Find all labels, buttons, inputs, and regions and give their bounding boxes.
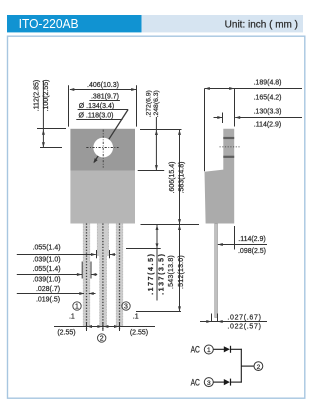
svg-text:.114(2.9): .114(2.9) xyxy=(254,122,282,129)
lead 2 (front, wide upper section) xyxy=(97,224,109,331)
dim line .606/.583 upper xyxy=(179,130,181,224)
svg-text:.512(13.0): .512(13.0) xyxy=(178,255,185,289)
arrow down .606 xyxy=(178,219,181,224)
arrow .055 #2 xyxy=(77,273,82,276)
pin number 1 xyxy=(73,302,81,310)
pitch arrows xyxy=(87,325,92,328)
arrow down .543 xyxy=(178,306,181,311)
svg-text:.028(.7): .028(.7) xyxy=(36,286,60,293)
node circle 2 xyxy=(254,362,263,371)
side view package profile xyxy=(205,129,235,224)
ext line side back xyxy=(234,89,236,127)
dim line .543/.512 xyxy=(179,225,181,312)
side view hole centerline xyxy=(220,146,240,148)
svg-text:Ø .134(3.4): Ø .134(3.4) xyxy=(79,103,114,110)
svg-text:.406(10.3): .406(10.3) xyxy=(87,82,119,89)
svg-text:.055(1.4): .055(1.4) xyxy=(33,245,61,252)
svg-text:.583(14.8): .583(14.8) xyxy=(178,162,185,194)
dim line .112/.100 xyxy=(42,81,44,148)
tick lead2 xyxy=(102,322,104,331)
arrow lead tip right xyxy=(218,320,223,323)
svg-text:.039(1.0): .039(1.0) xyxy=(33,276,61,283)
svg-text:2: 2 xyxy=(100,336,104,343)
svg-text:.189(4.8): .189(4.8) xyxy=(253,80,281,87)
lead tip baseline (side) xyxy=(200,321,267,323)
tick lead tip left xyxy=(211,314,213,322)
svg-text:.381(9.7): .381(9.7) xyxy=(91,93,119,100)
dim .406(10.3) line xyxy=(70,89,136,91)
wire vertical join xyxy=(240,349,242,383)
arrow up .606 xyxy=(178,130,181,135)
svg-text:.022(.57): .022(.57) xyxy=(227,323,261,330)
svg-text:.177(4.5): .177(4.5) xyxy=(148,252,155,294)
lead 1 (front) xyxy=(83,224,90,331)
unit strip xyxy=(142,15,304,32)
svg-text:.248(6.3): .248(6.3) xyxy=(153,90,160,117)
svg-text:.114(2.9): .114(2.9) xyxy=(238,236,266,243)
svg-text:.137(3.5): .137(3.5) xyxy=(158,252,165,294)
ext line tab bottom right xyxy=(138,170,165,172)
wire to node 2 xyxy=(241,365,254,367)
arrow up .177 at body ext xyxy=(156,225,159,230)
arrow down .272 xyxy=(155,165,158,170)
svg-text:.272(6.9): .272(6.9) xyxy=(146,90,153,117)
ext line side front xyxy=(204,89,206,172)
dim .189 line xyxy=(205,88,303,90)
svg-text:.1: .1 xyxy=(133,313,139,320)
ext line tab top left xyxy=(37,128,66,130)
arrow .130 right xyxy=(235,116,240,119)
dim line .055 #2 xyxy=(17,274,82,276)
svg-text:.606(15.4): .606(15.4) xyxy=(169,162,176,194)
mounting hole xyxy=(93,138,113,158)
svg-text:.1: .1 xyxy=(69,313,75,320)
diode D2 xyxy=(224,379,230,385)
svg-text:1: 1 xyxy=(75,304,79,311)
arrow up .543 at body ext xyxy=(178,225,181,230)
pin number 3 xyxy=(122,302,130,310)
svg-text:.098(2.5): .098(2.5) xyxy=(238,248,266,255)
arrow .114 lower xyxy=(218,243,223,246)
svg-text:.039(1.0): .039(1.0) xyxy=(33,256,61,263)
tick tab front xyxy=(222,113,224,124)
header title bar xyxy=(7,15,142,32)
wire D1 to corner xyxy=(231,348,242,350)
diode D1 xyxy=(224,346,230,352)
ext line lead tip (side) xyxy=(136,311,181,313)
side view hole band top xyxy=(223,137,234,139)
dim .114 lower line xyxy=(218,244,267,246)
svg-text:AC: AC xyxy=(191,345,201,355)
svg-text:3: 3 xyxy=(124,304,128,311)
arrow up .112 xyxy=(42,130,45,135)
svg-text:Ø .118(3.0): Ø .118(3.0) xyxy=(79,113,114,120)
arrow .028 xyxy=(79,292,84,295)
svg-text:.112(2.85): .112(2.85) xyxy=(33,80,40,111)
svg-text:.543(13.8): .543(13.8) xyxy=(168,255,175,289)
ext line hole center left xyxy=(40,147,62,149)
hole centerline vertical xyxy=(102,130,104,168)
svg-text:.019(.5): .019(.5) xyxy=(36,296,60,303)
dim line .055 #1 xyxy=(17,254,96,256)
arrow .055 #1 xyxy=(91,253,96,256)
svg-text:2: 2 xyxy=(257,364,261,371)
leader arrowhead xyxy=(94,158,98,163)
svg-text:3: 3 xyxy=(207,380,211,387)
extension line left (tab width) xyxy=(68,85,70,126)
node circle 1 xyxy=(204,345,213,354)
pin number 2 xyxy=(98,334,106,342)
arrow .130 left xyxy=(217,116,222,119)
svg-text:ITO-220AB: ITO-220AB xyxy=(19,17,79,31)
front view tab xyxy=(70,129,135,171)
arrow right of .406 xyxy=(131,88,136,91)
extension line right (tab width) xyxy=(136,85,138,126)
wire node1 to D1 xyxy=(214,348,225,350)
lead pitch baseline xyxy=(54,326,155,328)
tick lead tip right xyxy=(217,314,219,322)
tick lead3 xyxy=(119,322,121,331)
svg-text:(2.55): (2.55) xyxy=(57,330,75,337)
ext line body back below xyxy=(234,226,236,250)
dim .130 left piece xyxy=(214,117,223,119)
dim line .028 xyxy=(17,293,84,295)
side view lead xyxy=(215,224,218,318)
node circle 3 xyxy=(204,378,213,387)
dim .381(9.7) underline xyxy=(89,100,120,102)
arrow lead tip left xyxy=(206,320,211,323)
svg-text:.027(.67): .027(.67) xyxy=(227,315,261,322)
dim .130 right piece xyxy=(235,117,302,119)
dim line .177/.137 xyxy=(156,225,158,301)
tick lead1 xyxy=(86,322,88,331)
arrow down .177 xyxy=(156,243,159,248)
svg-text:.165(4.2): .165(4.2) xyxy=(253,95,281,102)
hole centerline horizontal xyxy=(86,147,118,149)
ext line tab top right xyxy=(140,129,182,131)
ext line body bottom right xyxy=(141,224,200,226)
dim .134 line xyxy=(78,109,129,111)
lead 3 (front) xyxy=(116,224,123,331)
svg-text:.130(3.3): .130(3.3) xyxy=(253,108,281,115)
svg-text:Unit: inch ( mm ): Unit: inch ( mm ) xyxy=(225,19,298,30)
svg-text:.055(1.4): .055(1.4) xyxy=(33,266,61,273)
wire D2 to corner xyxy=(231,381,242,383)
svg-text:1: 1 xyxy=(207,347,211,354)
arrow .189 right xyxy=(229,87,234,90)
arrow up .272 xyxy=(155,130,158,135)
dim line .272/.248 xyxy=(155,117,157,170)
dim .118 line xyxy=(76,119,122,121)
arrow .189 left xyxy=(205,87,210,90)
wire node3 to D2 xyxy=(214,381,225,383)
side view hole band bottom xyxy=(223,156,234,158)
arrow left of .406 xyxy=(69,88,74,91)
arrow down .112 xyxy=(42,142,45,147)
front view body xyxy=(70,171,135,224)
svg-text:(2.55): (2.55) xyxy=(130,330,148,337)
svg-text:.100(2.55): .100(2.55) xyxy=(43,80,50,112)
svg-text:AC: AC xyxy=(191,377,201,387)
ext line lead shoulder xyxy=(126,248,161,250)
leader line to hole xyxy=(94,110,128,163)
